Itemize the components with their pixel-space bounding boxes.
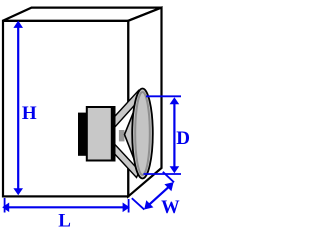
svg-text:D: D [176, 128, 190, 149]
svg-text:H: H [22, 103, 37, 124]
svg-text:L: L [58, 210, 71, 230]
svg-text:W: W [161, 198, 180, 218]
